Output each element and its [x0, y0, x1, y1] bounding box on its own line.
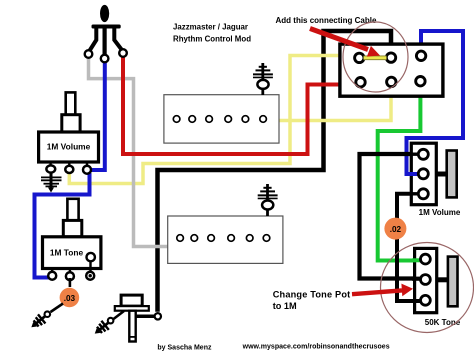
- node: jack ground terminal: [108, 318, 114, 324]
- label: Change Tone Pot to 1M: [273, 289, 351, 311]
- rhythm slide switch SW2 body: [340, 44, 443, 96]
- wire black: capacitor C2 to rhythm tone lug3: [397, 238, 417, 301]
- ground: pickup P2: [258, 184, 278, 216]
- wire yellow: pickup P1 hot to rhythm switch lug BM: [279, 84, 391, 121]
- ground: tone capacitor: [28, 312, 49, 332]
- wire gray: pickup selector switch to pickup P2: [89, 57, 168, 247]
- ground: volume lug 1: [41, 172, 62, 193]
- potentiometer VR2 lug stems: [52, 269, 70, 273]
- capacitor C1 .03 lead: [69, 278, 72, 287]
- wire black: jack tip lead: [136, 315, 154, 319]
- callout ellipse: connecting cable: [343, 22, 408, 92]
- potentiometer VR3 lug 3: [418, 189, 428, 199]
- potentiometer VR1 1M Volume body: [39, 132, 99, 162]
- potentiometer VR3 lug stems: [406, 154, 419, 194]
- potentiometer VR2 1M Tone shaft: [63, 199, 82, 237]
- rhythm switch lug TM: [386, 53, 395, 62]
- potentiometer VR3 shaft: [447, 151, 457, 198]
- output jack J1 sleeve: [121, 295, 142, 306]
- node: tone ground terminal: [45, 311, 51, 317]
- jumper cable: rhythm switch TL to TM: [364, 55, 387, 60]
- callout arrow: change tone pot: [352, 284, 413, 297]
- potentiometer VR1 lug 2: [65, 166, 73, 173]
- toggle switch SW1 center post: [102, 27, 106, 55]
- potentiometer VR3 lug 2: [418, 169, 428, 179]
- output jack J1 shaft: [129, 311, 137, 342]
- wire black: entry into VR4 lug 2: [412, 277, 421, 281]
- svg-text:by Sascha Menz: by Sascha Menz: [157, 344, 212, 351]
- wire blue: rhythm switch lug TR to rhythm volume lug2: [407, 31, 464, 174]
- svg-text:50K Tone: 50K Tone: [425, 318, 461, 327]
- rhythm switch lug TR: [416, 51, 425, 60]
- wire black: rhythm volume lug3 to capacitor C2: [397, 194, 417, 220]
- wire black: entry into VR4 lug 3: [412, 299, 421, 303]
- potentiometer VR4 lug 3: [421, 295, 431, 305]
- potentiometer VR1 lug stems: [51, 162, 87, 167]
- potentiometer VR3 shaft connector: [436, 172, 447, 177]
- potentiometer VR1 1M Volume shaft: [62, 92, 80, 132]
- svg-text:Jazzmaster / Jaguar: Jazzmaster / Jaguar: [173, 23, 248, 32]
- potentiometer VR1 lug 3: [83, 166, 91, 174]
- pickup P2 bridge: [168, 216, 283, 263]
- potentiometer VR2 lug 2: [66, 272, 74, 280]
- potentiometer VR4 lug 2: [421, 275, 431, 285]
- potentiometer VR2 1M Tone body: [43, 237, 101, 269]
- svg-text:1M Volume: 1M Volume: [419, 208, 461, 217]
- svg-text:Add this connecting Cable: Add this connecting Cable: [276, 16, 377, 25]
- wire red: pickup selector switch to rhythm switch lug BL: [123, 56, 356, 154]
- potentiometer VR1 lug 1: [46, 165, 55, 172]
- ground: pickup P1: [253, 63, 273, 95]
- label: 1M Volume (rhythm): [419, 208, 461, 217]
- wire: jack plate to ground: [114, 311, 125, 319]
- potentiometer VR4 shaft connector: [437, 277, 448, 282]
- node: jack tip terminal: [155, 313, 161, 319]
- potentiometer VR2 case lug: [87, 253, 95, 272]
- toggle switch SW1 left leg: [89, 28, 96, 52]
- rhythm switch lug TL: [355, 53, 364, 62]
- potentiometer VR4 rhythm tone body: [415, 248, 437, 312]
- svg-text:Rhythm Control Mod: Rhythm Control Mod: [173, 35, 251, 44]
- wire green: rhythm switch lug BR to rhythm tone lug1: [378, 84, 421, 261]
- callout ellipse: tone pot: [381, 243, 474, 333]
- potentiometer VR3 rhythm volume body: [411, 143, 436, 205]
- svg-text:www.myspace.com/robinsonandthe: www.myspace.com/robinsonandthecrusoes: [242, 344, 390, 351]
- svg-text:.03: .03: [64, 294, 76, 303]
- svg-text:1M Tone: 1M Tone: [50, 248, 84, 258]
- toggle switch SW1 right leg: [114, 28, 122, 51]
- potentiometer VR4 shaft: [448, 257, 458, 307]
- toggle switch SW1 bat lever: [100, 5, 109, 22]
- svg-text:.02: .02: [390, 225, 402, 234]
- title text: [173, 23, 251, 44]
- wire: capacitor C1 to ground: [51, 304, 64, 313]
- wire black: rhythm switch lug TM to output jack tip: [158, 31, 392, 312]
- capacitor C1 .03: [60, 288, 80, 308]
- rhythm switch lug BM: [387, 77, 396, 86]
- rhythm switch lug BR: [416, 77, 425, 86]
- toggle switch SW1 lug L: [85, 50, 93, 58]
- toggle switch SW1 lug M: [101, 55, 109, 63]
- label: 50K Tone: [425, 318, 461, 327]
- svg-text:to 1M: to 1M: [273, 301, 297, 311]
- potentiometer VR4 lug 1: [421, 254, 431, 264]
- rhythm switch lug BL: [356, 78, 365, 87]
- toggle switch SW1 bar: [92, 25, 121, 29]
- wire blue: volume lug3 to tone lug1: [35, 173, 90, 278]
- wire yellow: volume wiper to rhythm switch lug TL: [69, 56, 356, 184]
- wire black: rhythm volume lug1 to rhythm tone lug2: [360, 154, 418, 279]
- potentiometer VR3 lug 1: [418, 149, 428, 159]
- pickup P1 neck: [164, 95, 279, 143]
- pickup P2 pole pieces: [177, 235, 270, 242]
- capacitor C2 .02: [384, 218, 406, 240]
- credit text: [157, 344, 389, 352]
- svg-text:1M Volume: 1M Volume: [47, 141, 91, 151]
- potentiometer VR2 lug 3: [86, 272, 94, 280]
- toggle switch SW1 lug R: [119, 49, 127, 57]
- potentiometer VR2 lug 1: [48, 272, 56, 280]
- wire blue: entry into VR3 lug 2: [405, 172, 419, 176]
- output jack J1 plate: [115, 306, 149, 311]
- svg-text:Change Tone Pot: Change Tone Pot: [273, 289, 351, 299]
- wire blue: switch middle lug to volume lug3: [91, 61, 105, 171]
- pickup P1 pole pieces: [173, 116, 266, 123]
- callout arrow: add connecting cable: [310, 29, 380, 57]
- wire green: entry into VR4 lug 1: [412, 258, 421, 262]
- ground: output jack: [91, 318, 112, 338]
